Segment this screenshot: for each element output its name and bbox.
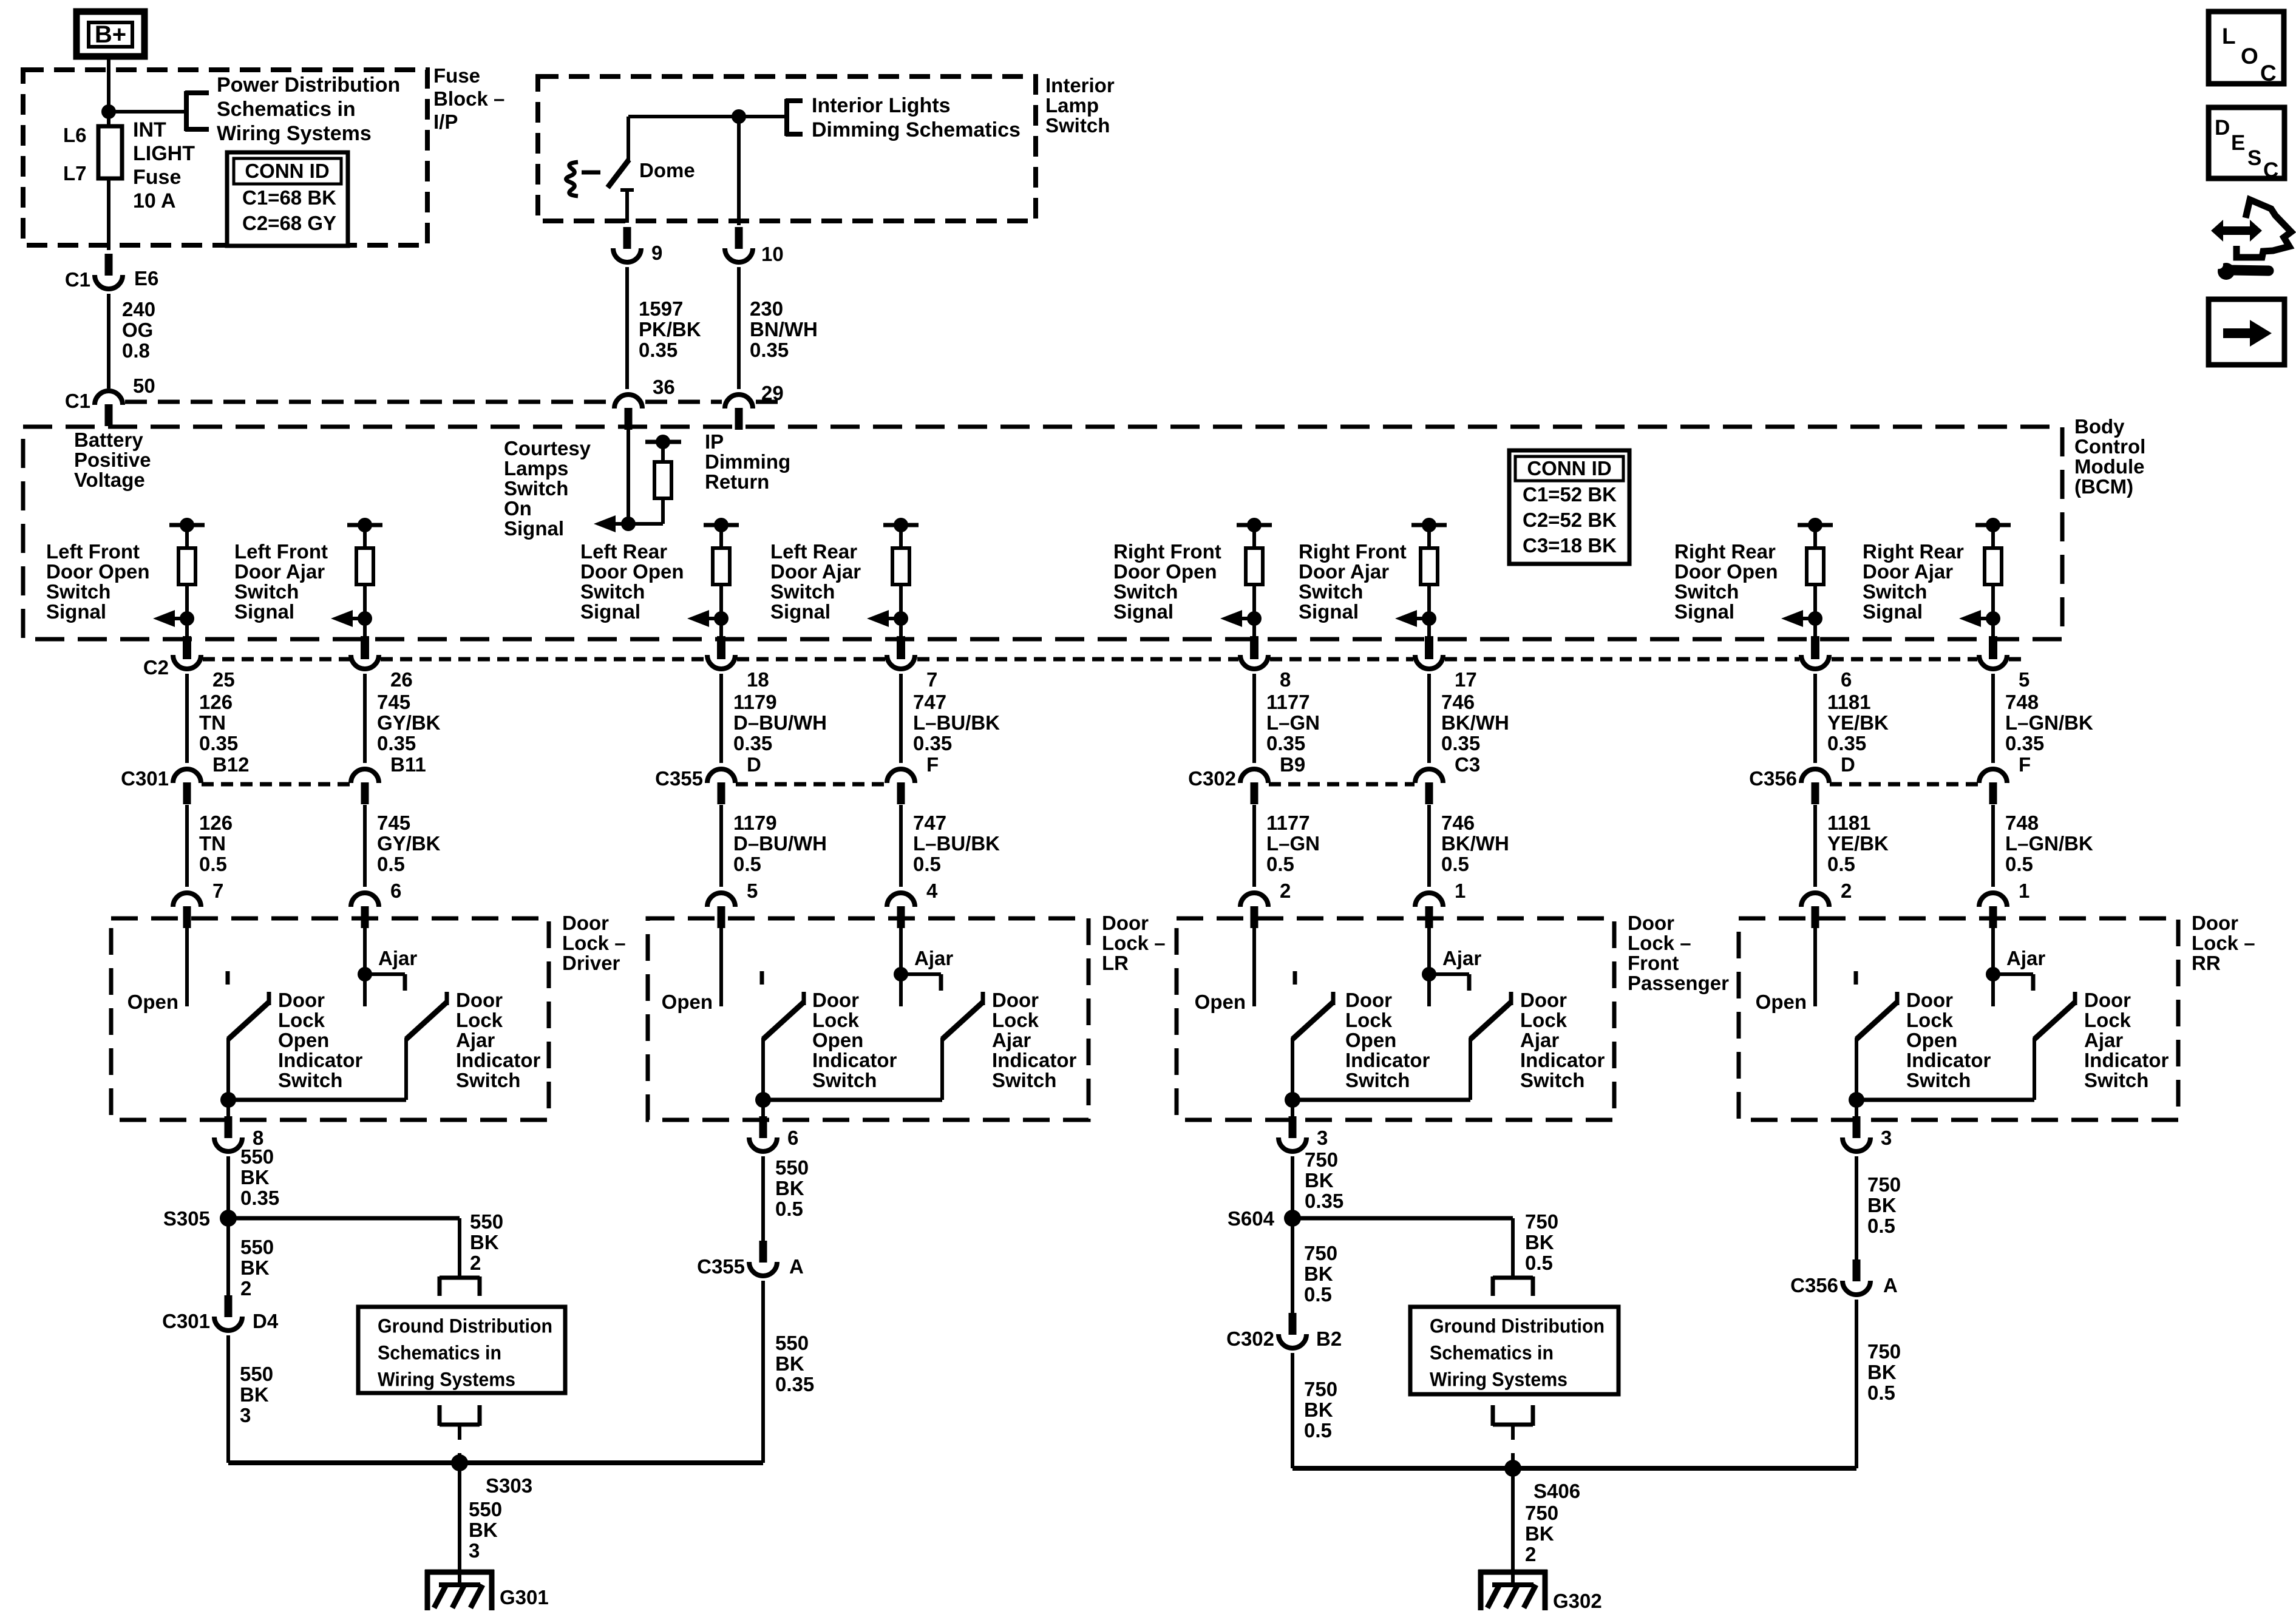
svg-text:750: 750: [1867, 1340, 1901, 1363]
svg-text:2: 2: [470, 1252, 481, 1274]
svg-text:230: 230: [750, 297, 783, 320]
svg-text:C1: C1: [65, 390, 90, 412]
svg-text:Ajar: Ajar: [456, 1029, 495, 1051]
svg-text:Wiring Systems: Wiring Systems: [378, 1368, 515, 1390]
svg-text:Door: Door: [1520, 989, 1567, 1011]
svg-text:C301: C301: [121, 767, 169, 790]
svg-text:Signal: Signal: [234, 600, 294, 623]
svg-text:C1: C1: [65, 268, 90, 291]
svg-text:S305: S305: [163, 1207, 210, 1230]
svg-text:7: 7: [212, 880, 223, 902]
svg-text:Ground Distribution: Ground Distribution: [378, 1315, 552, 1337]
svg-text:L–BU/BK: L–BU/BK: [913, 832, 1000, 855]
svg-text:C: C: [2263, 158, 2278, 182]
svg-text:Lock: Lock: [456, 1009, 503, 1031]
svg-text:746: 746: [1441, 812, 1475, 834]
svg-text:1: 1: [1455, 880, 1466, 902]
svg-text:D: D: [1841, 753, 1855, 776]
svg-text:Fuse: Fuse: [433, 64, 480, 87]
svg-text:0.35: 0.35: [1266, 732, 1305, 754]
svg-text:Indicator: Indicator: [1906, 1049, 1991, 1071]
svg-text:6: 6: [1841, 668, 1852, 691]
svg-text:745: 745: [377, 812, 410, 834]
svg-text:Door: Door: [2084, 989, 2131, 1011]
svg-text:A: A: [789, 1255, 804, 1278]
svg-text:750: 750: [1867, 1173, 1901, 1196]
svg-text:Ajar: Ajar: [2084, 1029, 2123, 1051]
svg-text:L: L: [2222, 24, 2236, 49]
svg-text:YE/BK: YE/BK: [1827, 832, 1889, 855]
svg-text:Block –: Block –: [433, 87, 504, 110]
svg-text:BK: BK: [1867, 1194, 1897, 1216]
svg-text:0.35: 0.35: [2005, 732, 2044, 754]
svg-text:C355: C355: [697, 1255, 745, 1278]
svg-text:Ajar: Ajar: [914, 947, 953, 969]
svg-text:Door Ajar: Door Ajar: [1299, 560, 1389, 583]
svg-text:Signal: Signal: [46, 600, 106, 623]
svg-text:Door: Door: [2192, 912, 2238, 934]
svg-text:Lock: Lock: [2084, 1009, 2131, 1031]
svg-text:36: 36: [653, 376, 675, 398]
svg-text:BK: BK: [469, 1519, 498, 1541]
svg-text:0.5: 0.5: [2005, 853, 2033, 875]
svg-text:Switch: Switch: [504, 477, 568, 500]
svg-text:Dimming: Dimming: [705, 450, 790, 473]
svg-text:Indicator: Indicator: [1520, 1049, 1605, 1071]
svg-text:Switch: Switch: [1863, 580, 1927, 603]
svg-text:Left Front: Left Front: [46, 540, 140, 563]
svg-text:0.5: 0.5: [913, 853, 941, 875]
svg-text:Driver: Driver: [562, 952, 620, 974]
svg-text:0.5: 0.5: [1304, 1283, 1332, 1306]
svg-text:RR: RR: [2192, 952, 2221, 974]
svg-text:25: 25: [212, 668, 235, 691]
svg-text:L7: L7: [63, 162, 87, 185]
svg-text:Dome: Dome: [639, 159, 695, 181]
svg-text:Switch: Switch: [580, 580, 645, 603]
svg-text:1177: 1177: [1266, 812, 1310, 834]
svg-text:Indicator: Indicator: [278, 1049, 363, 1071]
svg-text:D4: D4: [253, 1310, 279, 1332]
svg-text:Switch: Switch: [2084, 1069, 2148, 1091]
svg-text:Indicator: Indicator: [992, 1049, 1077, 1071]
svg-text:Lock: Lock: [1345, 1009, 1393, 1031]
svg-text:Left Rear: Left Rear: [770, 540, 857, 563]
svg-text:0.35: 0.35: [377, 732, 416, 754]
svg-text:I/P: I/P: [433, 110, 458, 133]
svg-text:Door Ajar: Door Ajar: [1863, 560, 1953, 583]
svg-text:Door: Door: [278, 989, 325, 1011]
svg-text:BK/WH: BK/WH: [1441, 711, 1509, 734]
svg-text:BK: BK: [470, 1231, 499, 1253]
svg-text:Lock: Lock: [992, 1009, 1039, 1031]
svg-text:1179: 1179: [733, 812, 777, 834]
svg-text:750: 750: [1525, 1502, 1558, 1524]
svg-text:E: E: [2231, 131, 2245, 155]
svg-text:Lock: Lock: [1520, 1009, 1567, 1031]
svg-text:Door Open: Door Open: [46, 560, 150, 583]
svg-text:BK: BK: [1304, 1263, 1333, 1285]
svg-text:On: On: [504, 497, 532, 520]
svg-text:OG: OG: [122, 319, 153, 341]
svg-text:Door Ajar: Door Ajar: [770, 560, 861, 583]
svg-text:S406: S406: [1533, 1480, 1580, 1502]
svg-text:YE/BK: YE/BK: [1827, 711, 1889, 734]
svg-text:550: 550: [240, 1363, 273, 1385]
svg-text:Switch: Switch: [234, 580, 299, 603]
svg-text:2: 2: [1280, 880, 1291, 902]
svg-text:Switch: Switch: [456, 1069, 520, 1091]
svg-text:C302: C302: [1188, 767, 1236, 790]
svg-text:550: 550: [775, 1332, 809, 1354]
svg-text:Door: Door: [562, 912, 609, 934]
svg-text:S: S: [2247, 146, 2261, 170]
svg-text:6: 6: [787, 1127, 798, 1149]
svg-text:F: F: [926, 753, 939, 776]
svg-text:10: 10: [761, 243, 784, 265]
svg-text:L–GN: L–GN: [1266, 711, 1320, 734]
svg-text:Signal: Signal: [1674, 600, 1734, 623]
svg-text:A: A: [1883, 1274, 1898, 1297]
svg-text:3: 3: [1317, 1127, 1328, 1149]
svg-text:Lock –: Lock –: [1102, 932, 1166, 954]
svg-text:Schematics in: Schematics in: [217, 98, 356, 121]
svg-text:Lock –: Lock –: [1628, 932, 1691, 954]
svg-text:Switch: Switch: [770, 580, 835, 603]
svg-text:BN/WH: BN/WH: [750, 318, 818, 341]
svg-text:Ajar: Ajar: [1442, 947, 1481, 969]
svg-text:0.8: 0.8: [122, 339, 150, 362]
svg-text:0.5: 0.5: [1827, 853, 1855, 875]
svg-text:(BCM): (BCM): [2074, 475, 2133, 498]
svg-text:C355: C355: [655, 767, 703, 790]
svg-text:BK: BK: [240, 1383, 269, 1406]
svg-text:Open: Open: [812, 1029, 863, 1051]
svg-text:Lock –: Lock –: [2192, 932, 2255, 954]
svg-text:747: 747: [913, 812, 946, 834]
svg-text:0.35: 0.35: [775, 1373, 814, 1395]
svg-text:Switch: Switch: [812, 1069, 877, 1091]
svg-text:Open: Open: [1756, 991, 1807, 1013]
svg-text:0.35: 0.35: [1827, 732, 1866, 754]
svg-text:Interior Lights: Interior Lights: [812, 94, 951, 117]
svg-text:6: 6: [390, 880, 401, 902]
svg-text:Signal: Signal: [504, 517, 564, 540]
svg-text:Lock: Lock: [812, 1009, 860, 1031]
svg-text:0.5: 0.5: [733, 853, 761, 875]
svg-text:9: 9: [651, 242, 662, 264]
svg-text:3: 3: [1881, 1127, 1892, 1149]
svg-text:Battery: Battery: [74, 429, 143, 451]
svg-text:Passenger: Passenger: [1628, 972, 1729, 994]
svg-text:C2=52 BK: C2=52 BK: [1523, 509, 1617, 531]
svg-text:1179: 1179: [733, 691, 777, 713]
svg-text:Indicator: Indicator: [456, 1049, 541, 1071]
svg-text:Wiring Systems: Wiring Systems: [1430, 1368, 1567, 1390]
svg-text:BK: BK: [1305, 1169, 1334, 1192]
svg-text:Dimming Schematics: Dimming Schematics: [812, 118, 1021, 141]
svg-text:0.5: 0.5: [199, 853, 227, 875]
svg-text:C356: C356: [1790, 1274, 1838, 1297]
svg-text:Signal: Signal: [580, 600, 640, 623]
svg-text:3: 3: [240, 1404, 251, 1426]
svg-text:Schematics in: Schematics in: [378, 1341, 501, 1363]
svg-text:Signal: Signal: [1113, 600, 1173, 623]
svg-text:BK: BK: [240, 1166, 270, 1188]
svg-text:BK: BK: [1525, 1231, 1554, 1253]
svg-text:Front: Front: [1628, 952, 1679, 974]
svg-text:2: 2: [240, 1277, 251, 1300]
svg-text:0.5: 0.5: [775, 1198, 803, 1220]
svg-text:L–GN/BK: L–GN/BK: [2005, 832, 2093, 855]
svg-text:550: 550: [469, 1498, 502, 1520]
svg-text:B11: B11: [390, 753, 426, 776]
svg-text:Open: Open: [127, 991, 178, 1013]
svg-text:0.35: 0.35: [913, 732, 952, 754]
svg-text:0.35: 0.35: [199, 732, 238, 754]
svg-text:0.5: 0.5: [1867, 1381, 1895, 1404]
svg-text:L6: L6: [63, 124, 87, 146]
svg-text:C301: C301: [162, 1310, 210, 1332]
svg-text:O: O: [2241, 44, 2258, 69]
svg-text:Voltage: Voltage: [74, 469, 145, 491]
svg-text:INT: INT: [133, 118, 166, 141]
svg-text:C356: C356: [1749, 767, 1797, 790]
svg-text:550: 550: [775, 1156, 809, 1179]
svg-text:50: 50: [133, 375, 155, 397]
svg-text:BK: BK: [1525, 1522, 1554, 1545]
svg-text:Lock: Lock: [1906, 1009, 1954, 1031]
svg-text:Courtesy: Courtesy: [504, 437, 591, 459]
svg-text:Left Front: Left Front: [234, 540, 328, 563]
svg-text:B12: B12: [212, 753, 250, 776]
svg-text:BK: BK: [1867, 1361, 1897, 1383]
svg-text:5: 5: [747, 880, 758, 902]
svg-text:E6: E6: [134, 267, 158, 290]
svg-text:240: 240: [122, 298, 155, 320]
svg-text:1597: 1597: [639, 297, 683, 320]
svg-text:Lamp: Lamp: [1045, 94, 1099, 117]
svg-text:126: 126: [199, 812, 233, 834]
svg-text:Interior: Interior: [1045, 74, 1115, 97]
svg-text:Schematics in: Schematics in: [1430, 1341, 1554, 1363]
svg-text:D: D: [2215, 116, 2230, 140]
svg-text:Indicator: Indicator: [812, 1049, 897, 1071]
svg-text:1177: 1177: [1266, 691, 1310, 713]
svg-text:Open: Open: [1906, 1029, 1957, 1051]
svg-text:Lock –: Lock –: [562, 932, 626, 954]
svg-text:Right Front: Right Front: [1299, 540, 1407, 563]
svg-text:C302: C302: [1226, 1327, 1274, 1350]
svg-text:745: 745: [377, 691, 410, 713]
svg-text:750: 750: [1304, 1378, 1337, 1400]
svg-text:Indicator: Indicator: [1345, 1049, 1430, 1071]
svg-text:550: 550: [240, 1236, 274, 1258]
svg-text:C3=18 BK: C3=18 BK: [1523, 534, 1617, 557]
svg-text:8: 8: [1280, 668, 1291, 691]
svg-text:10 A: 10 A: [133, 189, 176, 212]
svg-text:18: 18: [747, 668, 769, 691]
svg-text:Power Distribution: Power Distribution: [217, 73, 400, 97]
svg-text:D–BU/WH: D–BU/WH: [733, 711, 827, 734]
svg-text:BK/WH: BK/WH: [1441, 832, 1509, 855]
svg-text:747: 747: [913, 691, 946, 713]
svg-text:Signal: Signal: [1299, 600, 1359, 623]
svg-text:C1=68 BK: C1=68 BK: [242, 186, 336, 209]
svg-text:Left Rear: Left Rear: [580, 540, 667, 563]
svg-text:Switch: Switch: [1045, 114, 1110, 137]
svg-text:GY/BK: GY/BK: [377, 711, 441, 734]
svg-text:Switch: Switch: [46, 580, 110, 603]
svg-text:BK: BK: [775, 1352, 804, 1375]
svg-text:Body: Body: [2074, 415, 2125, 438]
svg-text:Right Rear: Right Rear: [1674, 540, 1776, 563]
svg-text:Signal: Signal: [1863, 600, 1923, 623]
svg-text:0.35: 0.35: [1441, 732, 1480, 754]
svg-text:0.5: 0.5: [377, 853, 405, 875]
svg-text:Indicator: Indicator: [2084, 1049, 2169, 1071]
svg-text:Lamps: Lamps: [504, 457, 568, 480]
svg-text:Signal: Signal: [770, 600, 830, 623]
svg-text:Door: Door: [1102, 912, 1149, 934]
svg-text:C2=68 GY: C2=68 GY: [242, 212, 336, 234]
svg-text:S604: S604: [1228, 1207, 1275, 1230]
svg-text:D–BU/WH: D–BU/WH: [733, 832, 827, 855]
svg-text:Module: Module: [2074, 455, 2144, 478]
svg-text:0.35: 0.35: [733, 732, 772, 754]
svg-text:S303: S303: [486, 1474, 532, 1497]
svg-text:L–GN/BK: L–GN/BK: [2005, 711, 2093, 734]
svg-text:Door Ajar: Door Ajar: [234, 560, 325, 583]
svg-text:0.5: 0.5: [1525, 1252, 1553, 1274]
svg-text:748: 748: [2005, 812, 2039, 834]
svg-text:PK/BK: PK/BK: [639, 318, 701, 341]
svg-text:LIGHT: LIGHT: [133, 142, 195, 165]
svg-text:7: 7: [926, 668, 937, 691]
svg-text:IP: IP: [705, 430, 724, 453]
svg-text:Control: Control: [2074, 435, 2145, 458]
svg-text:5: 5: [2019, 668, 2029, 691]
svg-text:B+: B+: [95, 21, 126, 48]
svg-text:17: 17: [1455, 668, 1477, 691]
svg-text:Door: Door: [1345, 989, 1392, 1011]
svg-text:L–GN: L–GN: [1266, 832, 1320, 855]
svg-text:Right Rear: Right Rear: [1863, 540, 1964, 563]
svg-text:Return: Return: [705, 470, 769, 493]
svg-text:1181: 1181: [1827, 691, 1871, 713]
svg-text:126: 126: [199, 691, 233, 713]
svg-text:26: 26: [390, 668, 413, 691]
svg-text:0.5: 0.5: [1304, 1419, 1332, 1442]
svg-text:Door Open: Door Open: [1674, 560, 1778, 583]
svg-text:0.35: 0.35: [750, 339, 789, 361]
svg-text:0.35: 0.35: [639, 339, 678, 361]
svg-text:Open: Open: [278, 1029, 329, 1051]
svg-text:4: 4: [926, 880, 938, 902]
svg-text:Switch: Switch: [1520, 1069, 1584, 1091]
svg-text:L–BU/BK: L–BU/BK: [913, 711, 1000, 734]
svg-text:Switch: Switch: [1345, 1069, 1410, 1091]
svg-text:Positive: Positive: [74, 449, 151, 471]
svg-text:TN: TN: [199, 711, 226, 734]
svg-text:Switch: Switch: [278, 1069, 342, 1091]
svg-text:BK: BK: [240, 1256, 270, 1279]
svg-text:Open: Open: [662, 991, 713, 1013]
svg-text:Door Open: Door Open: [580, 560, 684, 583]
svg-text:Door: Door: [992, 989, 1039, 1011]
svg-text:C1=52 BK: C1=52 BK: [1523, 483, 1617, 506]
svg-text:750: 750: [1305, 1148, 1338, 1171]
svg-text:Open: Open: [1345, 1029, 1396, 1051]
svg-text:Switch: Switch: [1113, 580, 1178, 603]
svg-text:750: 750: [1304, 1242, 1337, 1264]
svg-text:2: 2: [1525, 1543, 1536, 1565]
svg-text:LR: LR: [1102, 952, 1129, 974]
svg-text:GY/BK: GY/BK: [377, 832, 441, 855]
svg-text:Open: Open: [1195, 991, 1246, 1013]
svg-text:0.35: 0.35: [240, 1187, 279, 1209]
svg-text:C3: C3: [1455, 753, 1480, 776]
svg-text:Switch: Switch: [1299, 580, 1363, 603]
svg-text:550: 550: [470, 1210, 503, 1233]
svg-text:CONN ID: CONN ID: [245, 160, 329, 182]
svg-text:G301: G301: [500, 1586, 549, 1609]
svg-text:748: 748: [2005, 691, 2039, 713]
svg-text:Door: Door: [1628, 912, 1674, 934]
svg-text:Ground Distribution: Ground Distribution: [1430, 1315, 1605, 1337]
svg-text:F: F: [2019, 753, 2031, 776]
svg-text:Door: Door: [456, 989, 503, 1011]
svg-text:Switch: Switch: [1674, 580, 1739, 603]
svg-text:B9: B9: [1280, 753, 1305, 776]
svg-text:Right Front: Right Front: [1113, 540, 1221, 563]
svg-text:0.5: 0.5: [1867, 1215, 1895, 1237]
svg-text:Ajar: Ajar: [2006, 947, 2045, 969]
svg-text:Ajar: Ajar: [992, 1029, 1031, 1051]
svg-text:750: 750: [1525, 1210, 1558, 1233]
svg-text:0.5: 0.5: [1441, 853, 1469, 875]
svg-text:Door: Door: [1906, 989, 1953, 1011]
svg-text:C2: C2: [143, 656, 169, 679]
svg-text:0.5: 0.5: [1266, 853, 1294, 875]
svg-text:G302: G302: [1553, 1590, 1602, 1612]
svg-text:Ajar: Ajar: [378, 947, 417, 969]
svg-text:1: 1: [2019, 880, 2029, 902]
svg-text:550: 550: [240, 1145, 274, 1168]
svg-text:Lock: Lock: [278, 1009, 325, 1031]
svg-text:C: C: [2260, 61, 2277, 86]
svg-text:Switch: Switch: [1906, 1069, 1971, 1091]
svg-text:3: 3: [469, 1539, 480, 1562]
svg-text:Wiring Systems: Wiring Systems: [217, 122, 372, 145]
svg-text:BK: BK: [1304, 1398, 1333, 1421]
svg-text:746: 746: [1441, 691, 1475, 713]
svg-text:Door Open: Door Open: [1113, 560, 1217, 583]
svg-text:Door: Door: [812, 989, 859, 1011]
svg-text:BK: BK: [775, 1177, 804, 1199]
svg-text:D: D: [747, 753, 761, 776]
svg-text:2: 2: [1841, 880, 1852, 902]
svg-text:Switch: Switch: [992, 1069, 1056, 1091]
svg-text:Ajar: Ajar: [1520, 1029, 1559, 1051]
svg-text:1181: 1181: [1827, 812, 1871, 834]
svg-text:TN: TN: [199, 832, 226, 855]
svg-text:0.35: 0.35: [1305, 1190, 1343, 1212]
svg-text:B2: B2: [1316, 1327, 1342, 1350]
svg-text:CONN ID: CONN ID: [1527, 457, 1611, 480]
svg-text:Fuse: Fuse: [133, 166, 181, 189]
